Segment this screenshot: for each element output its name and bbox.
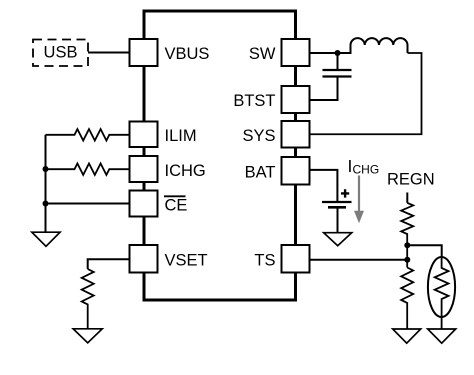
resistor R_ICHG bbox=[46, 164, 130, 175]
IC U1 body bbox=[144, 11, 296, 300]
ground thermistor bbox=[428, 329, 456, 343]
resistor R_VSET bbox=[82, 269, 94, 329]
resistor R_REGN bbox=[401, 203, 413, 268]
ground left bus bbox=[32, 232, 60, 246]
pin BTST bbox=[282, 86, 310, 113]
node junction TS bbox=[404, 257, 410, 263]
svg-text:SYS: SYS bbox=[242, 127, 275, 145]
pin ILIM bbox=[130, 122, 158, 148]
ground R_TS bbox=[393, 329, 421, 343]
battery B1 bbox=[322, 201, 352, 203]
wire SW node bbox=[310, 45, 351, 53]
arrow I_CHG (gray) bbox=[358, 176, 360, 212]
wire CE to bus bbox=[46, 203, 130, 205]
node junction CE bbox=[43, 201, 49, 207]
wire VSET bbox=[88, 259, 130, 269]
wire BAT bbox=[310, 170, 338, 201]
pin CE bbox=[130, 191, 158, 217]
ground battery bbox=[324, 233, 352, 246]
svg-text:BAT: BAT bbox=[245, 164, 276, 182]
pin VBUS bbox=[130, 39, 158, 66]
svg-text:REGN: REGN bbox=[387, 171, 435, 189]
pin SYS bbox=[282, 121, 310, 148]
wire USB to VBUS bbox=[88, 52, 130, 54]
node junction divider top bbox=[404, 242, 410, 248]
ground VSET bbox=[73, 329, 102, 343]
pin SW bbox=[282, 39, 310, 66]
svg-text:ICHG: ICHG bbox=[165, 162, 206, 180]
node junction ICHG bbox=[43, 166, 49, 172]
svg-text:TS: TS bbox=[254, 252, 275, 270]
resistor R_TS low bbox=[401, 268, 413, 330]
thermistor RT1 bbox=[428, 257, 455, 317]
USB source bbox=[33, 40, 88, 67]
wire to thermistor bbox=[407, 245, 441, 257]
pin TS bbox=[282, 245, 310, 273]
svg-text:SW: SW bbox=[249, 45, 276, 63]
wire left bus vertical bbox=[45, 135, 47, 232]
svg-text:ILIM: ILIM bbox=[165, 127, 197, 145]
resistor R_ILIM bbox=[46, 129, 130, 140]
wire REGN bbox=[406, 193, 408, 203]
svg-text:USB: USB bbox=[44, 44, 78, 62]
wire TS to divider bbox=[310, 259, 408, 261]
inductor L1 bbox=[351, 38, 408, 53]
pin BAT bbox=[282, 157, 310, 185]
svg-text:VBUS: VBUS bbox=[165, 45, 210, 63]
svg-text:CHG: CHG bbox=[353, 163, 380, 177]
svg-text:CE: CE bbox=[165, 197, 188, 215]
svg-text:VSET: VSET bbox=[165, 252, 208, 270]
svg-text:BTST: BTST bbox=[233, 92, 275, 110]
node junction SW bbox=[335, 50, 341, 56]
wire SYS loop bbox=[310, 53, 422, 134]
battery plus sign bbox=[341, 189, 349, 197]
pin VSET bbox=[130, 245, 158, 273]
wire BTST bbox=[310, 77, 338, 101]
capacitor C_BTST bbox=[337, 53, 339, 70]
pin ICHG bbox=[130, 156, 158, 182]
